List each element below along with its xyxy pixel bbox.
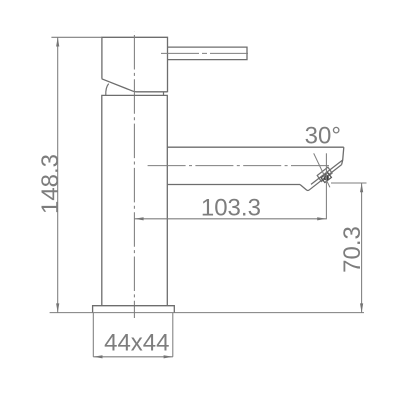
handle tilt arc: [106, 84, 109, 96]
dim 44 line: [93, 356, 173, 358]
dim 148.3 arrow top: [56, 37, 59, 46]
collar tick: [163, 92, 165, 96]
svg-text:70.3: 70.3: [339, 226, 366, 273]
dim 44 arrow left: [93, 355, 102, 358]
angle 30 deg leg: [314, 153, 330, 187]
dim 103.3 arrow left: [134, 217, 143, 220]
spout top edge: [167, 146, 343, 148]
lever handle: [168, 47, 248, 60]
dim 103.3 line: [134, 218, 326, 220]
counter surface line: [50, 312, 364, 314]
svg-text:148.3: 148.3: [37, 154, 64, 214]
spout tip right edge: [342, 147, 344, 164]
dim 103.3 arrow right: [317, 217, 326, 220]
dim 148.3 arrow bottom: [56, 303, 59, 312]
dim 70.3 arrow top: [360, 183, 363, 192]
dim 44 extension left: [92, 313, 94, 357]
spout tip face upper line: [311, 160, 343, 184]
handle head block: [102, 37, 168, 92]
dim 70.3 extension top: [331, 182, 367, 184]
body: [102, 95, 168, 305]
aerator outline: [317, 167, 332, 181]
svg-text:44x44: 44x44: [104, 330, 169, 357]
dim 44 arrow right: [164, 355, 173, 358]
dim 148.3 line: [57, 37, 59, 312]
body centerline: [133, 32, 135, 319]
aerator center blob: [324, 175, 329, 180]
lever centerline: [161, 52, 251, 54]
dim 70.3 line: [361, 183, 363, 313]
spout centerline: [148, 165, 330, 167]
dim 44 extension right: [172, 313, 174, 357]
top extension line: [51, 36, 102, 38]
angle vertical leg: [325, 153, 327, 219]
base flange: [93, 306, 175, 313]
spout bottom edge: [167, 184, 300, 186]
aerator inner: [321, 173, 331, 183]
dim 70.3 arrow bottom: [360, 303, 363, 312]
svg-text:30°: 30°: [305, 123, 341, 150]
handle bottom diagonal: [102, 79, 168, 92]
svg-text:103.3: 103.3: [201, 195, 261, 222]
spout tip face lower line and lip: [300, 165, 342, 191]
